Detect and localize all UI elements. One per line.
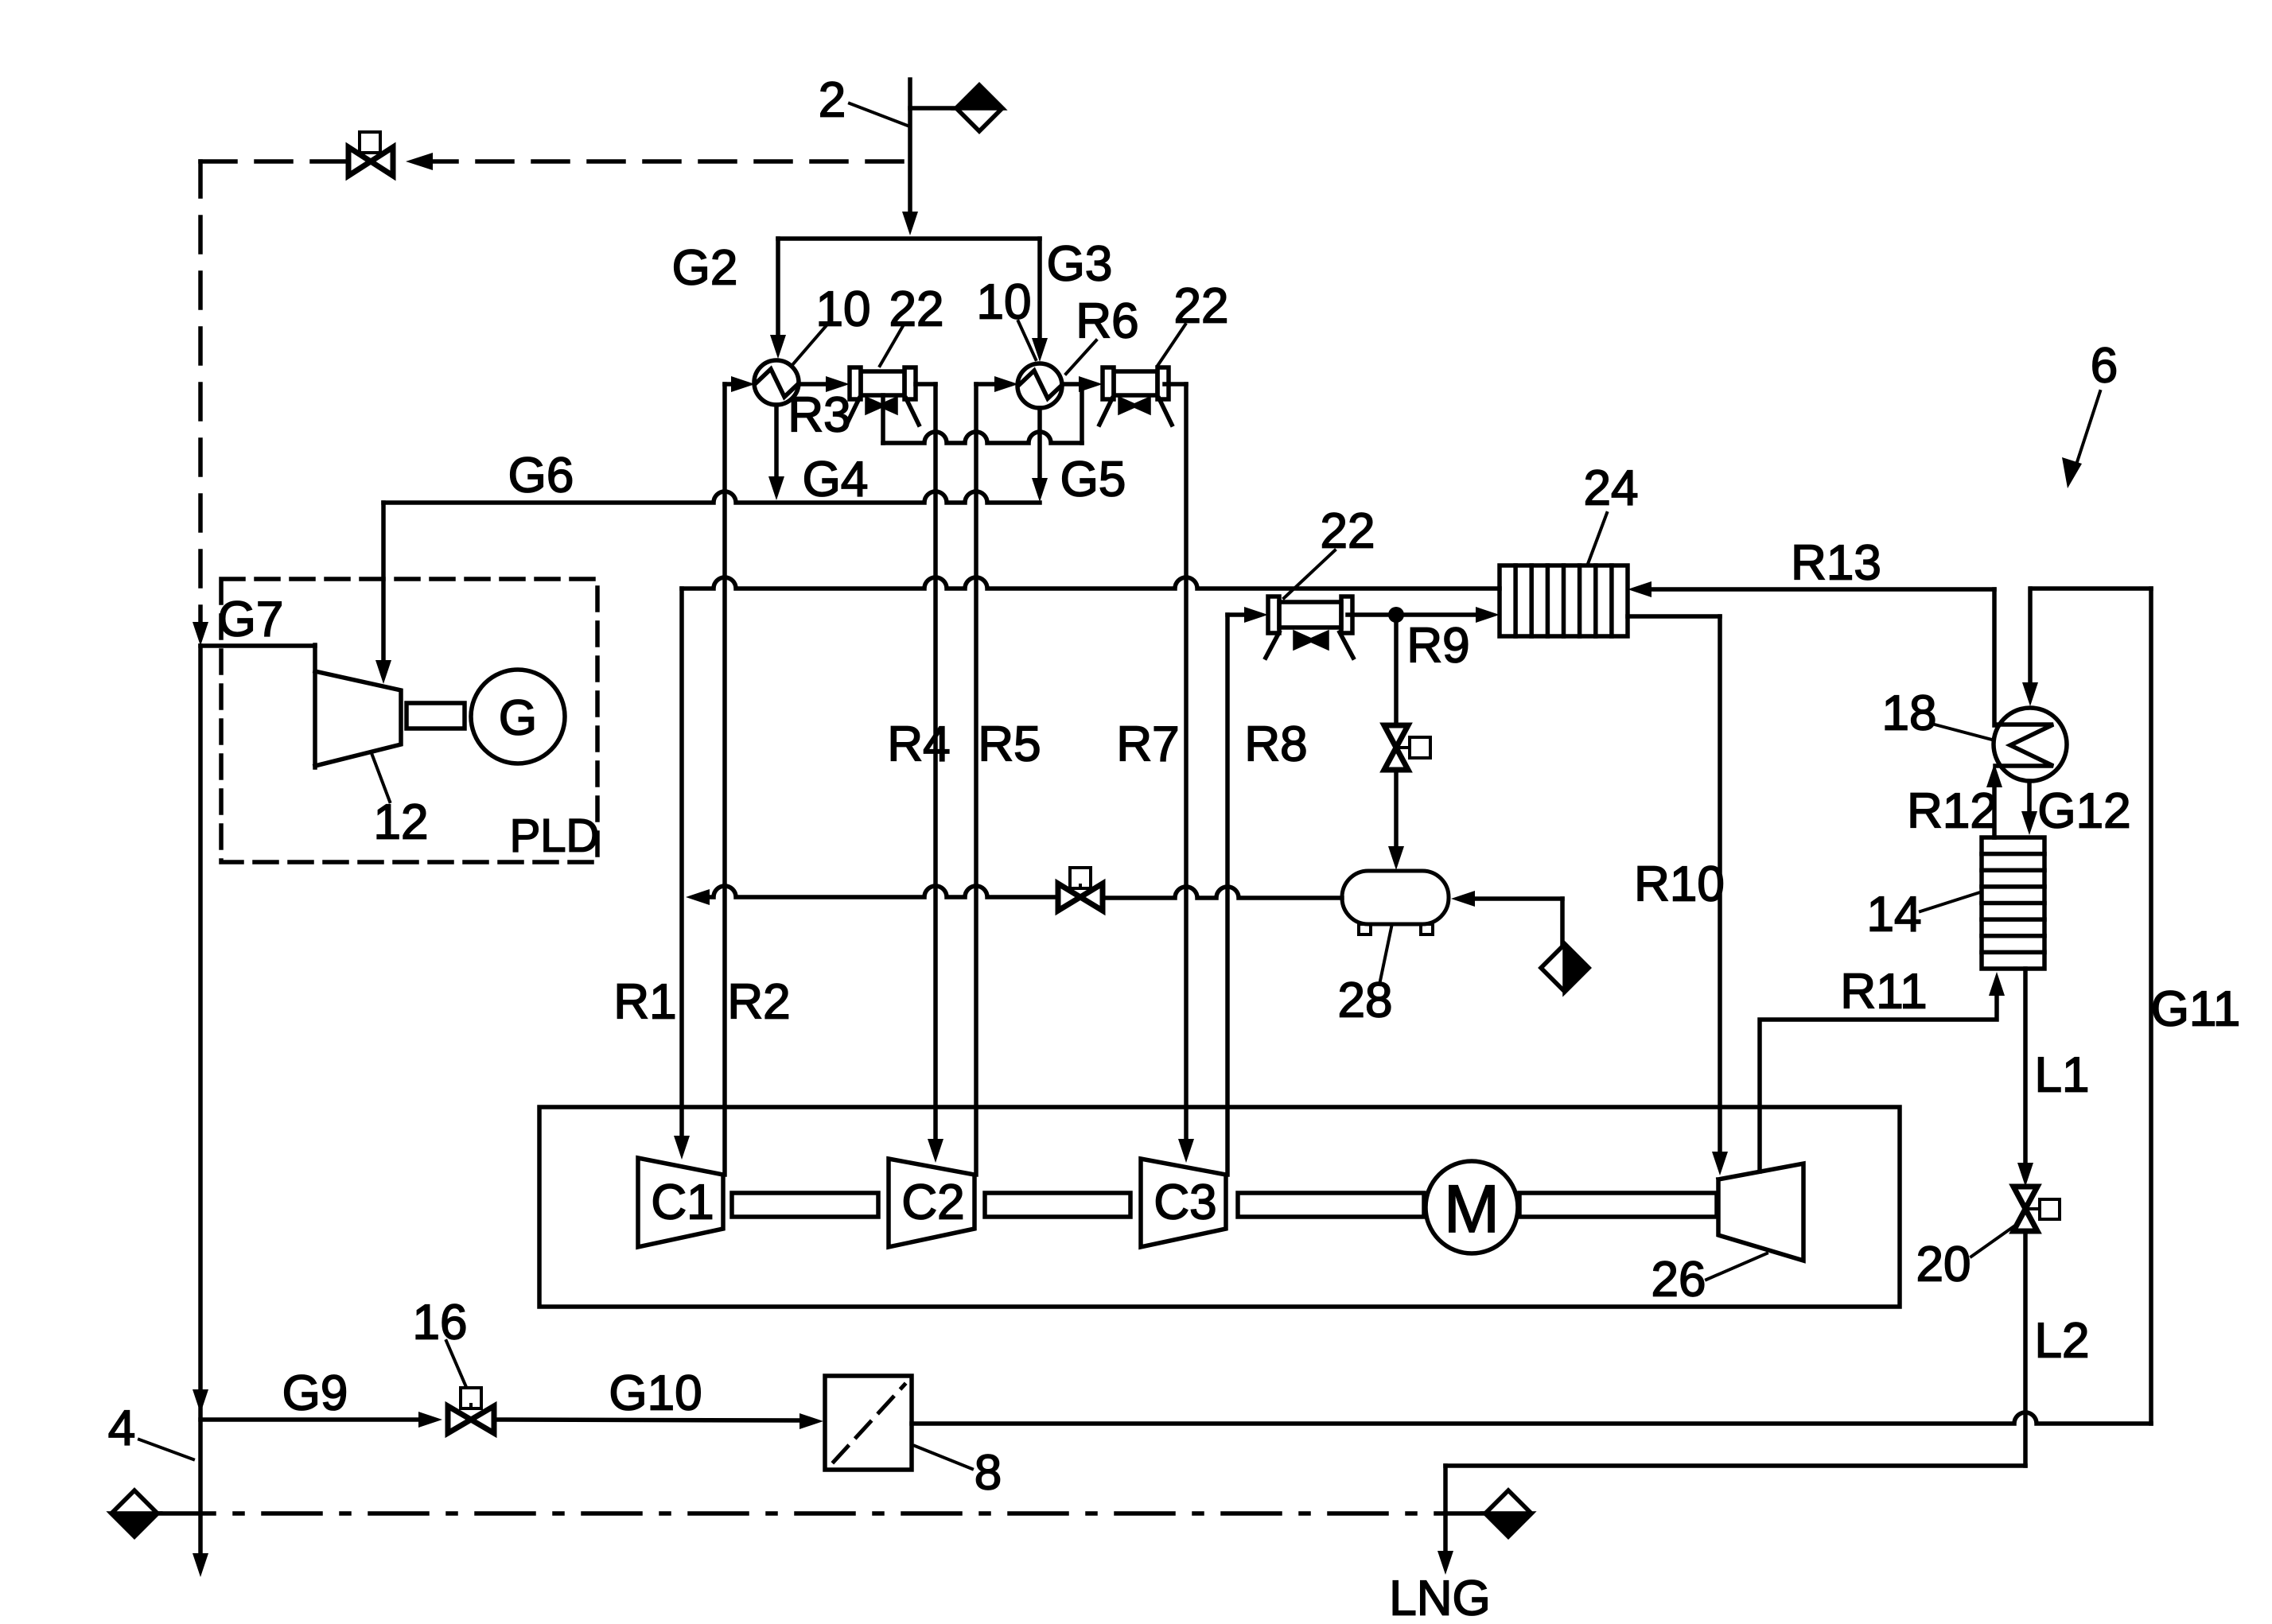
JT valve above drum 28: [1384, 725, 1408, 748]
valve 16: [461, 1388, 481, 1408]
wire fan stem cooler 22 first: [881, 395, 885, 443]
svg-text:28: 28: [1338, 973, 1393, 1028]
svg-text:R10: R10: [1634, 857, 1725, 912]
wire makeup into drum 28: [1473, 896, 1562, 901]
control line (dashed) from feed to valve: [422, 159, 910, 164]
svg-text:R13: R13: [1791, 536, 1881, 591]
wire heater 10 left to cooler 22: [799, 382, 829, 387]
wire R11 from expander 26 to exchanger 14: [1760, 996, 1997, 1171]
wire stub to feed marker: [910, 106, 956, 111]
expander 26: [1718, 1164, 1803, 1261]
wire L1: [2023, 969, 2028, 1163]
wire node R9 down to valve: [1394, 615, 1399, 725]
svg-text:R9: R9: [1406, 619, 1469, 674]
air cooler 22 (second): [1103, 367, 1114, 399]
shaft C3-M: [1238, 1193, 1424, 1217]
svg-text:R11: R11: [1840, 965, 1927, 1020]
svg-text:26: 26: [1651, 1253, 1706, 1307]
wire R5 into heater 10 right: [976, 382, 999, 387]
wire G9: [200, 1417, 420, 1422]
svg-text:G9: G9: [282, 1366, 348, 1421]
wire splitter header: [778, 236, 1040, 241]
wire valve to drum 28: [1103, 887, 1342, 898]
flare marker diamond left: [111, 1490, 158, 1537]
svg-text:G3: G3: [1047, 237, 1113, 292]
wire dashed line left of valve: [200, 159, 348, 164]
svg-text:2: 2: [819, 73, 846, 128]
air cooler 22 (third): [1268, 596, 1279, 633]
svg-text:G11: G11: [2151, 982, 2241, 1037]
wire recycle into R1: [708, 886, 1058, 897]
feed stream marker diamond: [956, 85, 1002, 131]
svg-text:6: 6: [2091, 339, 2118, 394]
wire G12 down into 14: [2027, 781, 2032, 811]
wire G3 branch: [1037, 239, 1042, 340]
svg-text:C3: C3: [1154, 1175, 1216, 1230]
svg-text:12: 12: [374, 795, 429, 850]
shaft turbine 12 to generator: [407, 703, 465, 728]
svg-text:R3: R3: [788, 388, 850, 443]
expansion turbine 12: [313, 645, 317, 767]
dashed recycle line vertical left: [198, 161, 203, 622]
wire gas feed over to exchanger 18: [2031, 586, 2151, 591]
shaft C2-C3: [985, 1193, 1130, 1217]
JT valve 20: [2013, 1187, 2037, 1209]
svg-text:C2: C2: [901, 1175, 964, 1230]
accumulator drum 28: [1342, 871, 1449, 924]
wire cooler to node R9: [1348, 612, 1396, 617]
svg-text:G4: G4: [803, 453, 869, 507]
leader line for 2: [850, 103, 908, 126]
svg-text:24: 24: [1584, 461, 1639, 516]
svg-text:R6: R6: [1076, 294, 1138, 349]
svg-text:22: 22: [1174, 279, 1229, 334]
wire R10 from cooler 24 to expander 26: [1628, 614, 1720, 619]
wire R1 down to C1: [679, 589, 684, 1137]
dryer 8: [825, 1376, 912, 1470]
wire R4 from cooler 22 to C2: [916, 382, 936, 387]
svg-text:R12: R12: [1907, 784, 1998, 839]
svg-text:R2: R2: [727, 975, 790, 1030]
svg-text:R5: R5: [978, 717, 1041, 772]
wire heater 10 right to cooler 22 second: [1062, 382, 1082, 387]
wire left main vertical: [198, 646, 203, 1555]
wire feed inlet vertical: [908, 80, 912, 213]
svg-text:8: 8: [975, 1446, 1002, 1501]
wire R2 from C1 to heater: [722, 384, 727, 1175]
makeup source marker diamond: [1541, 944, 1589, 992]
svg-text:L2: L2: [2035, 1314, 2090, 1369]
compressor C1: [638, 1158, 723, 1247]
svg-text:R4: R4: [887, 717, 950, 772]
wire G4: [774, 405, 779, 478]
svg-text:PLD: PLD: [510, 810, 600, 862]
svg-text:22: 22: [1321, 504, 1375, 559]
recycle throttle valve: [1070, 868, 1091, 888]
heat exchanger 10 (right): [1017, 363, 1062, 408]
wire R13 corner down to exchanger 18: [1992, 589, 1997, 725]
wire R2 into heater 10 left: [725, 382, 736, 387]
wire valve to drum 28 top: [1394, 770, 1399, 846]
svg-text:R7: R7: [1116, 717, 1179, 772]
svg-text:10: 10: [977, 275, 1032, 330]
svg-text:G2: G2: [672, 241, 738, 296]
wire G7: [200, 643, 315, 648]
svg-text:M: M: [1444, 1171, 1500, 1246]
compressor C3: [1141, 1159, 1226, 1247]
shaft C1-C2: [732, 1193, 878, 1217]
svg-text:22: 22: [889, 282, 944, 337]
wire R7 from cooler 22 second to C3: [1165, 382, 1186, 387]
wire G10: [494, 1420, 799, 1420]
LNG product marker diamond: [1445, 1511, 1486, 1516]
exchanger 18: [1994, 708, 2067, 781]
svg-text:G12: G12: [2037, 784, 2130, 839]
boundary PLD dashed box: [221, 579, 597, 862]
wire G6 header: [383, 491, 1040, 503]
svg-text:G: G: [499, 691, 537, 746]
svg-text:G7: G7: [218, 592, 284, 647]
wire R13 line: [1650, 587, 1994, 592]
svg-text:20: 20: [1916, 1237, 1971, 1292]
heat exchanger 10 (left): [754, 360, 799, 405]
wire R12 up into 18: [1992, 787, 1997, 837]
svg-text:G5: G5: [1060, 453, 1126, 507]
wire G6 down to turbine 12: [381, 503, 386, 660]
exchanger 14 hatched: [1982, 837, 2044, 969]
wire tie line between coolers: [883, 432, 1082, 443]
svg-text:LNG: LNG: [1389, 1572, 1490, 1624]
svg-text:R8: R8: [1244, 717, 1307, 772]
wire G5: [1037, 408, 1042, 480]
boundary compressor train box: [539, 1107, 1900, 1307]
generator G: [471, 670, 565, 763]
node R9 junction: [1388, 607, 1404, 623]
wire L2: [2023, 1231, 2028, 1466]
compressor C2: [889, 1159, 975, 1247]
svg-text:4: 4: [108, 1401, 135, 1456]
control valve on recycle line: [360, 132, 380, 153]
wire R8 from C3 up: [1225, 615, 1230, 1175]
shaft M-26: [1519, 1193, 1717, 1217]
svg-text:18: 18: [1882, 686, 1937, 741]
svg-text:14: 14: [1867, 888, 1922, 942]
wire LNG down: [1443, 1466, 1448, 1551]
svg-text:16: 16: [413, 1296, 468, 1350]
wire R9 into cooler 24: [1403, 612, 1478, 617]
motor M: [1426, 1161, 1518, 1253]
wire R5 from C2 to heater: [974, 384, 978, 1175]
air cooler 22 (first): [850, 367, 861, 399]
svg-text:L1: L1: [2035, 1048, 2090, 1103]
wire G2 branch: [776, 239, 780, 336]
flare dash-dot line: [157, 1511, 1445, 1516]
cooler 24 hatched: [1500, 565, 1628, 636]
svg-text:C1: C1: [651, 1175, 714, 1230]
svg-text:G6: G6: [508, 449, 574, 503]
wire return line to R1: [682, 577, 1500, 589]
svg-text:R1: R1: [613, 975, 676, 1030]
wire G10 out / G11: [912, 1412, 2151, 1424]
svg-text:G10: G10: [609, 1366, 702, 1421]
